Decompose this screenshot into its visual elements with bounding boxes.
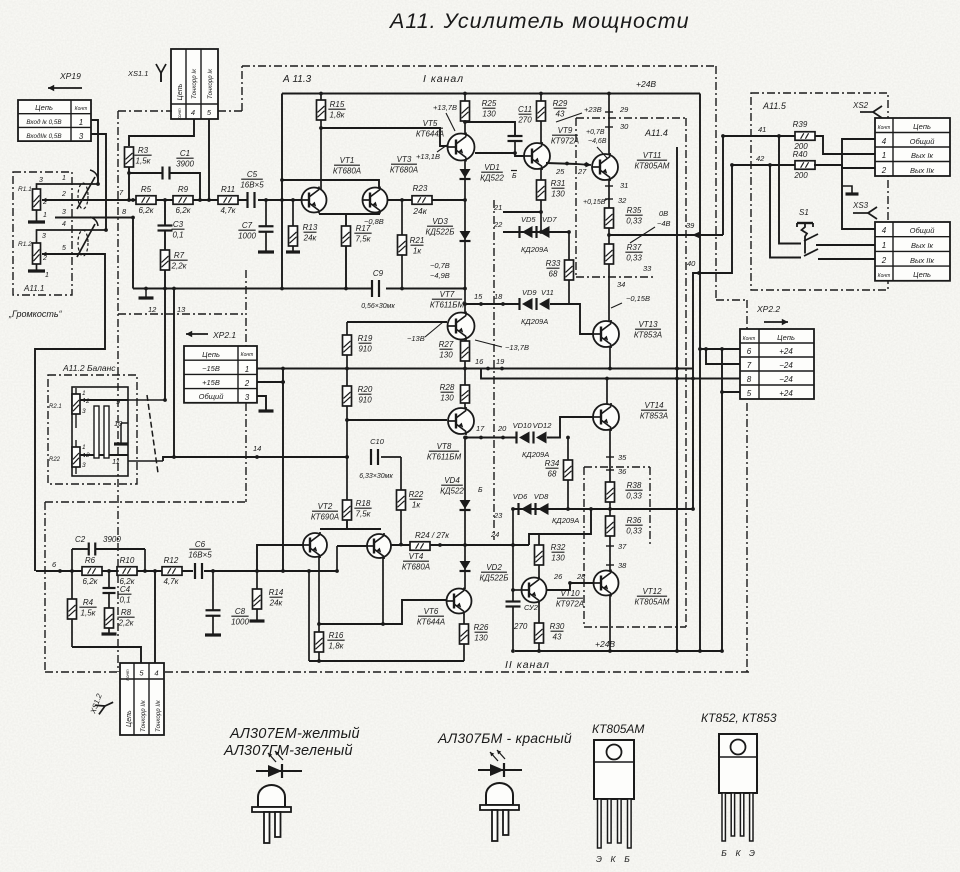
svg-text:Вход Iк 0,5В: Вход Iк 0,5В: [26, 118, 61, 126]
svg-text:26: 26: [553, 572, 563, 581]
svg-text:КТ853А: КТ853А: [640, 412, 668, 421]
wire balance taps: [80, 398, 128, 457]
svg-text:200: 200: [793, 171, 808, 180]
svg-text:VT2: VT2: [318, 502, 333, 511]
svg-text:7,5к: 7,5к: [356, 235, 372, 244]
svg-text:+13,1В: +13,1В: [416, 152, 440, 161]
svg-text:0,56×30мк: 0,56×30мк: [361, 303, 395, 310]
svg-text:35: 35: [618, 453, 627, 462]
svg-text:VD3: VD3: [432, 217, 448, 226]
svg-text:270: 270: [517, 116, 532, 125]
resistor R18: [343, 499, 372, 520]
ground rail I: [139, 289, 154, 299]
wire emitter bar I: [319, 214, 384, 289]
svg-text:15: 15: [474, 292, 483, 301]
svg-text:+13,7В: +13,7В: [433, 103, 457, 112]
svg-text:R22: R22: [409, 490, 424, 499]
svg-text:Цепь: Цепь: [35, 103, 53, 112]
svg-text:+0,7В: +0,7В: [586, 129, 605, 136]
svg-text:R17: R17: [356, 224, 371, 233]
svg-text:Конт: Конт: [878, 125, 891, 131]
svg-text:4: 4: [191, 108, 195, 117]
resistor R16: [315, 624, 345, 663]
resistor R11: [218, 185, 238, 215]
svg-text:+24В: +24В: [595, 639, 615, 649]
wire -15V: [257, 367, 693, 371]
ground R8: [102, 632, 117, 635]
resistor R39: [793, 120, 815, 151]
svg-text:16В×5: 16В×5: [240, 181, 264, 190]
LED symbol 2 diode: [478, 750, 522, 777]
label KT852: [701, 711, 777, 725]
resistor R38: [606, 481, 643, 502]
wire XP2.2 pin7: [704, 347, 740, 364]
svg-text:Э: Э: [749, 848, 755, 858]
svg-text:4: 4: [62, 221, 66, 228]
svg-text:R11: R11: [221, 185, 235, 194]
diode VD4: [440, 476, 483, 510]
svg-text:VT12: VT12: [642, 587, 662, 596]
svg-text:41: 41: [758, 125, 766, 134]
svg-text:R5: R5: [141, 185, 152, 194]
wire XS1.1 pin4 to R3: [129, 119, 194, 146]
wire S1 b: [779, 136, 801, 244]
svg-text:ВходIIк 0,5В: ВходIIк 0,5В: [26, 132, 61, 140]
label A11.4: [644, 128, 668, 138]
capacitor C7: [238, 198, 274, 252]
resistor R22: [397, 490, 424, 546]
svg-text:2,2к: 2,2к: [171, 262, 188, 271]
svg-text:Вых IIк: Вых IIк: [910, 166, 935, 175]
capacitor C8: [205, 569, 249, 635]
svg-text:R20: R20: [358, 385, 373, 394]
capacitor C9: [361, 269, 395, 310]
svg-text:VD12: VD12: [533, 421, 553, 430]
svg-text:3: 3: [39, 177, 43, 184]
node R9-R11: [163, 198, 167, 202]
svg-text:R25: R25: [482, 99, 497, 108]
wire VT7 base: [347, 321, 447, 323]
resistor R37: [605, 243, 643, 264]
svg-text:С9: С9: [373, 269, 384, 278]
wire node24: [490, 509, 591, 545]
svg-text:16В×5: 16В×5: [188, 551, 212, 560]
svg-text:АЛ307БМ - красный: АЛ307БМ - красный: [437, 730, 572, 746]
resistor R30: [535, 602, 565, 653]
svg-text:24к: 24к: [303, 234, 318, 243]
svg-text:R1.1: R1.1: [18, 186, 32, 193]
wire XP19 pin3: [91, 134, 108, 232]
svg-text:R34: R34: [545, 459, 560, 468]
resistor R40: [793, 150, 815, 180]
svg-text:Вых IIк: Вых IIк: [910, 256, 935, 265]
wire output 40: [687, 163, 796, 509]
svg-text:VT7: VT7: [440, 290, 455, 299]
svg-text:R38: R38: [627, 481, 642, 490]
transistor VT9: [524, 126, 579, 170]
wire R40 to XS2: [814, 165, 875, 168]
svg-text:VD9: VD9: [522, 288, 537, 297]
svg-text:1: 1: [43, 212, 47, 219]
transistor VT7: [430, 290, 475, 341]
label +23V: [556, 105, 602, 122]
capacitor C2: [70, 535, 147, 573]
svg-text:7: 7: [747, 361, 752, 370]
resistor R35: [605, 206, 643, 228]
svg-text:0,33: 0,33: [626, 254, 642, 263]
wire VD column II: [463, 436, 467, 589]
svg-text:II канал: II канал: [505, 659, 550, 671]
svg-text:1,5к: 1,5к: [81, 609, 97, 618]
svg-text:VD8: VD8: [534, 492, 549, 501]
connector XS1.2 table: [120, 663, 164, 735]
frame VD box: [493, 200, 495, 540]
wire feedback rail I: [133, 287, 467, 291]
wire emitter bar II: [320, 521, 381, 529]
wire VT14 collector: [606, 379, 608, 405]
svg-text:Конт: Конт: [241, 352, 254, 358]
wire node19: [481, 369, 740, 381]
svg-text:R39: R39: [793, 120, 808, 129]
diode VD1: [460, 163, 518, 183]
label KD209A 4: [552, 516, 579, 525]
potentiometer R2.2: [49, 440, 90, 474]
connector XP19 arrow: [48, 71, 82, 91]
wire XP2.2 pin5: [720, 390, 740, 394]
connector XP2.2 arrow: [756, 304, 788, 325]
svg-text:68: 68: [548, 470, 557, 479]
wire +15V column: [281, 367, 285, 573]
wire VD column: [464, 160, 466, 313]
label II channel: [505, 659, 550, 671]
svg-text:Б: Б: [512, 173, 517, 180]
svg-text:0,33: 0,33: [626, 217, 642, 226]
wire VT13 emitter: [609, 347, 611, 369]
svg-text:R7: R7: [174, 251, 185, 260]
socket XS3 symbol: [852, 201, 877, 219]
svg-text:19: 19: [496, 357, 505, 366]
svg-text:1: 1: [882, 241, 886, 250]
svg-text:−0,7В: −0,7В: [430, 261, 450, 270]
svg-text:2: 2: [881, 166, 887, 175]
resistor R34: [545, 436, 573, 511]
LED symbol 1 body: [252, 785, 291, 843]
svg-text:0В: 0В: [659, 209, 668, 218]
block A11.2 inner box: [72, 387, 128, 476]
svg-text:130: 130: [551, 554, 565, 563]
capacitor C5: [240, 170, 264, 208]
socket XS1.2 symbol: [88, 692, 115, 716]
svg-text:R33: R33: [546, 259, 561, 268]
node pins 1-5 of A11.1: [61, 175, 66, 252]
wire node21: [493, 203, 543, 214]
svg-text:ХР2.1: ХР2.1: [212, 330, 236, 340]
wire VT11 collector: [605, 94, 629, 155]
svg-text:43: 43: [553, 633, 562, 642]
svg-text:ХS1.1: ХS1.1: [127, 69, 148, 78]
transistor VT14: [593, 401, 668, 431]
wire VT12 emitter: [608, 595, 612, 653]
resistor R33: [546, 232, 574, 304]
connector XS1.1 table: [171, 49, 218, 120]
svg-text:ХS2: ХS2: [852, 101, 869, 110]
svg-text:VT9: VT9: [558, 126, 573, 135]
resistor R9: [173, 185, 193, 215]
svg-text:1000: 1000: [231, 618, 249, 627]
svg-text:34: 34: [617, 280, 625, 289]
svg-text:1к: 1к: [412, 501, 421, 510]
svg-text:13: 13: [177, 305, 186, 314]
svg-text:1: 1: [62, 175, 66, 182]
svg-text:2,2к: 2,2к: [118, 619, 135, 628]
svg-text:КТ972А: КТ972А: [556, 600, 584, 609]
resistor R13: [286, 198, 318, 252]
svg-text:3: 3: [79, 132, 84, 141]
LED symbol 2 body: [480, 783, 519, 841]
capacitor C11: [463, 105, 532, 153]
svg-text:37: 37: [618, 542, 627, 551]
svg-text:270: 270: [513, 622, 528, 631]
wire VT4 base rail: [335, 546, 367, 573]
wire C3 column: [163, 200, 167, 290]
resistor R8: [105, 608, 135, 628]
wire pin9 up: [137, 398, 167, 402]
svg-text:R29: R29: [553, 99, 568, 108]
frame top left: [118, 66, 242, 111]
svg-text:27: 27: [577, 167, 587, 176]
svg-text:КД209А: КД209А: [522, 450, 549, 459]
package KT852 drawing: [719, 734, 757, 858]
resistor R15: [317, 94, 346, 191]
label KD209A 3: [522, 450, 549, 459]
contact K1.2: [77, 217, 98, 257]
svg-text:КТ611БМ: КТ611БМ: [430, 301, 465, 310]
wire XP2.1 ground: [257, 396, 274, 411]
wire output 39 riser: [721, 134, 796, 235]
capacitor C1: [129, 149, 202, 202]
block A11.2 box: [48, 363, 137, 484]
svg-text:4,7к: 4,7к: [221, 206, 237, 215]
svg-text:R28: R28: [440, 383, 455, 392]
wire node22: [493, 220, 571, 234]
svg-text:40: 40: [687, 259, 696, 268]
label KT805AM: [592, 722, 644, 736]
node 7: [119, 188, 135, 202]
potentiometer R1.2: [18, 230, 106, 279]
label +24V top: [636, 79, 656, 89]
svg-text:6,2к: 6,2к: [176, 206, 192, 215]
wire S1 to XS3 pin2: [818, 258, 875, 260]
svg-text:R15: R15: [330, 100, 345, 109]
frame A11.4 upper: [576, 118, 686, 277]
svg-text:39: 39: [686, 221, 695, 230]
svg-text:А11.2 Баланс: А11.2 Баланс: [62, 363, 116, 373]
label KD209A upper: [521, 245, 548, 254]
svg-text:+23В: +23В: [584, 105, 602, 114]
wire bus x677: [675, 147, 679, 651]
svg-text:R23: R23: [413, 184, 428, 193]
wire XP2.2 pin6: [700, 347, 740, 351]
svg-text:КТ852, КТ853: КТ852, КТ853: [701, 711, 777, 725]
svg-text:VT3: VT3: [397, 155, 412, 164]
title: [388, 9, 690, 33]
svg-text:VT6: VT6: [424, 607, 439, 616]
svg-text:КД209А: КД209А: [552, 516, 579, 525]
svg-text:5: 5: [62, 245, 66, 252]
block A11.1 box: [13, 172, 72, 295]
svg-text:16: 16: [475, 357, 484, 366]
svg-text:−13В: −13В: [407, 334, 425, 343]
label LED red: [437, 730, 572, 746]
svg-text:Э: Э: [596, 854, 602, 864]
svg-text:КТ680А: КТ680А: [402, 563, 430, 572]
package KT805AM drawing: [594, 740, 634, 864]
svg-text:ХS3: ХS3: [852, 201, 869, 210]
svg-text:R40: R40: [793, 150, 808, 159]
svg-text:ХР19: ХР19: [59, 71, 81, 81]
svg-text:R8: R8: [121, 608, 132, 617]
transistor VT3: [363, 155, 419, 214]
resistor R32: [535, 534, 566, 578]
svg-text:6,2к: 6,2к: [139, 206, 155, 215]
capacitor C3: [158, 220, 185, 240]
connector XS2 table: [875, 118, 950, 176]
wire node8 down: [132, 218, 134, 289]
svg-text:0,33: 0,33: [626, 527, 642, 536]
resistor R31: [537, 169, 566, 232]
svg-text:Общий: Общий: [910, 137, 936, 146]
frame A11.4 lower: [584, 467, 686, 627]
diode VD6: [513, 492, 532, 515]
wire channel I input: [42, 199, 309, 201]
label KD209A mid: [521, 317, 548, 326]
svg-text:+15В: +15В: [202, 378, 220, 387]
svg-text:Конт: Конт: [743, 336, 756, 342]
svg-text:КТ611БМ: КТ611БМ: [427, 453, 462, 462]
svg-text:VD4: VD4: [444, 476, 460, 485]
svg-text:8: 8: [747, 375, 752, 384]
wire VT4 collector: [381, 558, 385, 626]
svg-text:4,7к: 4,7к: [164, 577, 180, 586]
svg-text:R1.2: R1.2: [18, 241, 32, 248]
svg-text:33: 33: [643, 264, 652, 273]
resistor R36: [606, 516, 643, 536]
wire XP2.1 pin2: [257, 380, 285, 384]
svg-text:~4,6В: ~4,6В: [588, 138, 607, 145]
capacitor C4: [103, 569, 132, 633]
svg-text:А 11.3: А 11.3: [282, 74, 312, 85]
frame A11.4 right: [685, 118, 687, 628]
wire top rail: [282, 92, 700, 96]
wire node 14: [163, 444, 349, 461]
frame XP2.2 down: [746, 300, 748, 672]
svg-text:VT13: VT13: [638, 320, 658, 329]
svg-text:2: 2: [61, 191, 66, 198]
svg-text:R30: R30: [550, 622, 565, 631]
svg-text:С10: С10: [370, 437, 385, 446]
wire XP2.2 pin8: [693, 378, 740, 380]
potentiometer R1.1: [18, 177, 98, 221]
svg-text:20: 20: [497, 424, 507, 433]
svg-text:6,2к: 6,2к: [83, 577, 99, 586]
contact K1.1: [77, 170, 98, 209]
wire VT5 emitter to VT9: [475, 151, 525, 156]
svg-text:−24: −24: [779, 375, 793, 384]
svg-text:R16: R16: [329, 631, 344, 640]
label Громкость: [8, 309, 63, 319]
svg-text:VD1: VD1: [484, 163, 500, 172]
label -0,15V: [611, 294, 650, 308]
gang link: [94, 406, 109, 458]
wiper R1.1: [42, 198, 50, 203]
svg-text:68: 68: [549, 270, 558, 279]
svg-text:КТ680А: КТ680А: [333, 167, 361, 176]
svg-text:32: 32: [618, 196, 627, 205]
wire node23: [493, 507, 695, 520]
resistor R14: [250, 569, 284, 621]
connector XP2.1 arrow: [186, 330, 236, 340]
svg-text:КД522: КД522: [440, 487, 464, 496]
socket XS1.1 symbol: [127, 64, 166, 82]
svg-text:Цепь: Цепь: [177, 83, 184, 100]
resistor R10: [117, 556, 137, 586]
svg-text:VD2: VD2: [486, 563, 502, 572]
svg-text:+24: +24: [779, 389, 793, 398]
svg-text:А11. Усилитель мощности: А11. Усилитель мощности: [388, 9, 690, 33]
svg-text:+24В: +24В: [636, 79, 656, 89]
label -13V: [407, 322, 443, 343]
wire XP19 pin1: [91, 120, 100, 186]
svg-text:910: 910: [358, 345, 372, 354]
svg-text:R35: R35: [627, 206, 642, 215]
wire node16: [475, 357, 505, 370]
wire R3 bottom: [127, 167, 131, 202]
svg-text:VD6: VD6: [513, 492, 528, 501]
node 9: [116, 397, 137, 406]
diode VD9: [520, 288, 538, 310]
svg-text:I канал: I канал: [423, 73, 464, 85]
svg-text:1к: 1к: [413, 247, 422, 256]
resistor R24: [410, 531, 450, 550]
svg-text:0,1: 0,1: [119, 596, 130, 605]
svg-text:АЛ307ЕМ-желтый: АЛ307ЕМ-желтый: [229, 726, 360, 742]
wire channel II bottom: [307, 569, 464, 661]
svg-text:1,5к: 1,5к: [136, 157, 152, 166]
svg-text:12: 12: [148, 305, 157, 314]
svg-text:~4,9В: ~4,9В: [430, 271, 450, 280]
svg-text:R24 / 27к: R24 / 27к: [415, 531, 450, 540]
svg-text:6,33×30мк: 6,33×30мк: [359, 473, 393, 480]
svg-text:КТ805АМ: КТ805АМ: [592, 722, 644, 736]
svg-text:КД522: КД522: [480, 174, 504, 183]
block A11.5 box: [751, 93, 888, 290]
resistor R27: [439, 340, 470, 368]
svg-text:АЛ307ГМ-зеленый: АЛ307ГМ-зеленый: [223, 743, 353, 759]
svg-text:130: 130: [439, 351, 453, 360]
switch S1: [797, 208, 818, 256]
wire R39 to XS2: [815, 136, 875, 154]
svg-text:Вых Iк: Вых Iк: [911, 151, 933, 160]
potentiometer R2.1: [49, 388, 90, 428]
svg-text:VD7: VD7: [542, 215, 557, 224]
wire to VT14 base: [547, 417, 593, 438]
svg-text:30: 30: [620, 122, 629, 131]
frame bottom left: [45, 502, 246, 672]
diode VD12: [533, 421, 553, 444]
svg-text:R21: R21: [410, 236, 425, 245]
wire VT8 base: [347, 419, 447, 421]
wire XS1.1 pin5: [207, 119, 211, 202]
